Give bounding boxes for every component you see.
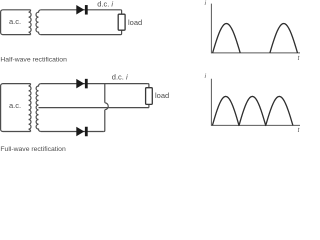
svg-text:Full-wave rectification: Full-wave rectification <box>0 146 66 153</box>
axes: half-wave output graph (i vs t) <box>211 4 300 53</box>
transformer T1 primary coil (half-wave) <box>29 10 32 35</box>
waveform: half-wave rectified current (two separated humps) <box>213 24 298 53</box>
transformer T2 primary coil (full-wave) <box>29 84 31 132</box>
diode D1 (half-wave rectifier) <box>76 5 84 15</box>
a.c. source box (full-wave primary side) <box>1 84 31 132</box>
svg-text:Half-wave rectification: Half-wave rectification <box>0 57 67 64</box>
svg-text:load: load <box>155 91 169 100</box>
wire: secondary bottom rail (full-wave) <box>41 131 104 133</box>
svg-text:i: i <box>205 0 207 7</box>
axes: full-wave output graph (i vs t) <box>211 79 300 126</box>
diode D2 (full-wave, top branch) <box>76 79 84 89</box>
svg-text:a.c.: a.c. <box>9 17 21 26</box>
svg-text:a.c.: a.c. <box>9 101 21 110</box>
resistor: load (half-wave) <box>118 14 125 30</box>
svg-text:d.c. i: d.c. i <box>112 73 128 82</box>
svg-text:t: t <box>298 127 300 134</box>
wire: right side + load stubs + bottom return (half-wave) <box>41 10 122 35</box>
wire: centre tap rail to load bottom (full-wave) <box>39 107 149 109</box>
svg-text:d.c. i: d.c. i <box>97 0 113 9</box>
a.c. source box (half-wave primary side) <box>1 10 31 35</box>
svg-text:load: load <box>128 18 142 27</box>
transformer T2 centre-tapped secondary coil (full-wave) <box>36 84 41 132</box>
resistor: load (full-wave) <box>146 88 153 105</box>
transformer T1 secondary coil (half-wave) <box>36 10 41 35</box>
diode D3 (full-wave, bottom branch) <box>76 127 84 137</box>
wire: secondary top rail (half-wave) <box>41 9 121 11</box>
svg-text:i: i <box>205 73 207 80</box>
svg-text:t: t <box>298 55 300 62</box>
wire: cathode bus with hop over centre tap (full-wave) <box>104 84 108 132</box>
wire: right side into load + load bottom stub (full-wave) <box>148 84 149 108</box>
waveform: full-wave rectified current (three adjacent humps) <box>212 96 293 125</box>
wire: secondary top rail (full-wave) <box>41 83 148 85</box>
